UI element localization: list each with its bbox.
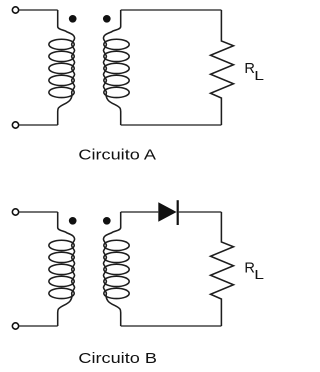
- terminal: Circuito A input bottom: [12, 122, 18, 128]
- wire: bottom-left terminal to primary: [19, 124, 58, 126]
- diode D1 cathode bar: [177, 200, 179, 225]
- wire: bottom-left terminal to primary: [19, 325, 58, 327]
- svg-text:L: L: [254, 69, 264, 83]
- wire: secondary top to load: [121, 9, 222, 11]
- wire: top-left terminal to primary: [19, 211, 58, 213]
- transformer T secondary winding: [104, 212, 130, 326]
- wire: bottom of load to secondary: [121, 325, 222, 327]
- svg-text:Circuito B: Circuito B: [78, 351, 157, 367]
- svg-text:L: L: [254, 268, 264, 282]
- polarity dot: primary: [69, 15, 77, 23]
- wire: top-left terminal to primary: [19, 9, 58, 11]
- terminal: Circuito B input top: [12, 209, 18, 215]
- resistor RL: [211, 10, 234, 125]
- transformer T primary winding: [49, 212, 75, 326]
- transformer T secondary winding: [104, 10, 130, 125]
- wire: diode cathode to load: [179, 211, 222, 213]
- polarity dot: primary: [69, 217, 77, 225]
- resistor RL: [211, 212, 234, 326]
- polarity dot: secondary: [103, 15, 111, 23]
- wire: bottom of load to secondary: [121, 124, 222, 126]
- terminal: Circuito A input top: [12, 7, 18, 13]
- polarity dot: secondary: [103, 217, 111, 225]
- transformer T primary winding: [49, 10, 75, 125]
- diode D1: [158, 202, 176, 221]
- terminal: Circuito B input bottom: [12, 323, 18, 329]
- wire: secondary top to diode anode: [121, 211, 159, 213]
- svg-text:Circuito A: Circuito A: [78, 147, 156, 163]
